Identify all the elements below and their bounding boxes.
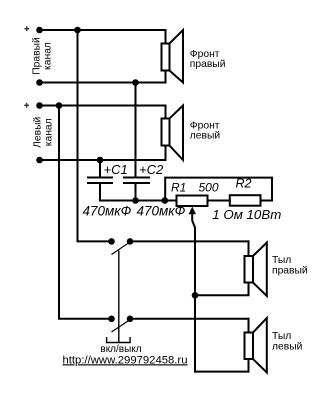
switch SA1.2 right contact (127, 316, 134, 323)
switch SA1.1 lever (112, 241, 132, 254)
label front right speaker (190, 49, 226, 70)
svg-text:R2: R2 (236, 177, 252, 191)
node right channel minus terminal (36, 79, 43, 86)
wire R1 wiper arm with arrow (189, 207, 196, 371)
wire rear-left speaker bottom lead (195, 359, 249, 372)
label rear right speaker (272, 255, 308, 276)
label plus right channel (24, 26, 29, 31)
switch SA1.1 left contact (108, 238, 115, 245)
wire front-left speaker bottom lead (165, 146, 167, 161)
svg-text:+С1: +С1 (104, 162, 128, 177)
wire rear-right speaker bottom lead (195, 283, 249, 296)
svg-text:левый: левый (190, 130, 221, 141)
wire front-right speaker top lead (165, 30, 167, 44)
label left channel name (32, 116, 54, 147)
svg-text:Левый: Левый (32, 116, 43, 147)
wire front-left speaker top lead (165, 106, 167, 119)
wire C2 bottom lead (135, 183, 137, 201)
node left channel minus terminal (36, 157, 43, 164)
speaker BA4 rear left (245, 318, 267, 373)
svg-text:+С2: +С2 (139, 162, 164, 177)
switch SA1.1 right contact (127, 238, 134, 245)
junction rear speakers common (192, 292, 199, 299)
junction node A bottom bus (162, 197, 169, 204)
resistor R2 body (230, 195, 261, 206)
wire C2 top lead (135, 83, 137, 178)
node right channel plus terminal (36, 27, 43, 34)
switch mechanical link (118, 251, 120, 343)
speaker BA3 rear right (245, 243, 267, 297)
svg-text:1 Ом 10Вт: 1 Ом 10Вт (212, 207, 281, 222)
switch actuator bracket (107, 337, 131, 343)
svg-text:правый: правый (272, 265, 308, 276)
svg-text:левый: левый (272, 341, 303, 352)
node left channel plus terminal (36, 102, 43, 109)
wire right channel plus rail (40, 29, 166, 31)
wire left channel plus rail (40, 105, 166, 107)
wire switch SA1.2 to rear-left speaker (130, 318, 249, 320)
capacitor C2 (124, 178, 149, 184)
wire from right plus rail down to switch SA1.1 (78, 30, 112, 241)
wire feedback loop around R1 R2 (165, 178, 272, 201)
label right channel name (32, 37, 54, 75)
svg-text:канал: канал (43, 118, 54, 146)
svg-text:Правый: Правый (32, 37, 43, 75)
svg-text:470мкФ: 470мкФ (137, 204, 186, 219)
junction C2 top lead on minus rail (132, 79, 139, 86)
wire from left plus rail down to switch SA1.2 (59, 106, 112, 319)
switch SA1.2 lever (112, 319, 132, 332)
label plus left channel (24, 103, 29, 108)
wire C1 top lead (99, 160, 101, 178)
svg-text:R1: R1 (171, 180, 186, 194)
junction right plus rail (74, 27, 81, 34)
speaker BA2 front left (162, 106, 184, 161)
speaker BA1 front right (162, 30, 184, 83)
svg-text:500: 500 (199, 180, 219, 194)
wire left channel minus rail (40, 159, 166, 161)
resistor R1 potentiometer body (177, 196, 208, 207)
svg-text:470мкФ: 470мкФ (83, 204, 132, 219)
svg-text:канал: канал (43, 42, 54, 70)
svg-text:http://www.299792458.ru: http://www.299792458.ru (63, 354, 188, 366)
junction C2 bottom lead (132, 197, 139, 204)
wire front-right speaker bottom lead (165, 71, 167, 83)
wire bottom bus to R1 (100, 200, 177, 202)
label rear left speaker (272, 331, 303, 352)
junction left plus rail (56, 102, 63, 109)
wire right channel minus rail (40, 82, 166, 84)
wire C1 bottom lead (99, 183, 101, 201)
label front left speaker (190, 120, 221, 141)
wire rear-right speaker top lead (248, 241, 250, 256)
svg-text:правый: правый (190, 59, 226, 70)
wire switch SA1.1 to rear-right speaker (130, 240, 249, 242)
junction C1 top lead on minus rail (97, 157, 104, 164)
capacitor C1 (88, 178, 112, 184)
switch SA1.2 left contact (108, 316, 115, 323)
wire rear-left speaker top lead (248, 319, 250, 333)
wire R1 to R2 (208, 200, 230, 202)
